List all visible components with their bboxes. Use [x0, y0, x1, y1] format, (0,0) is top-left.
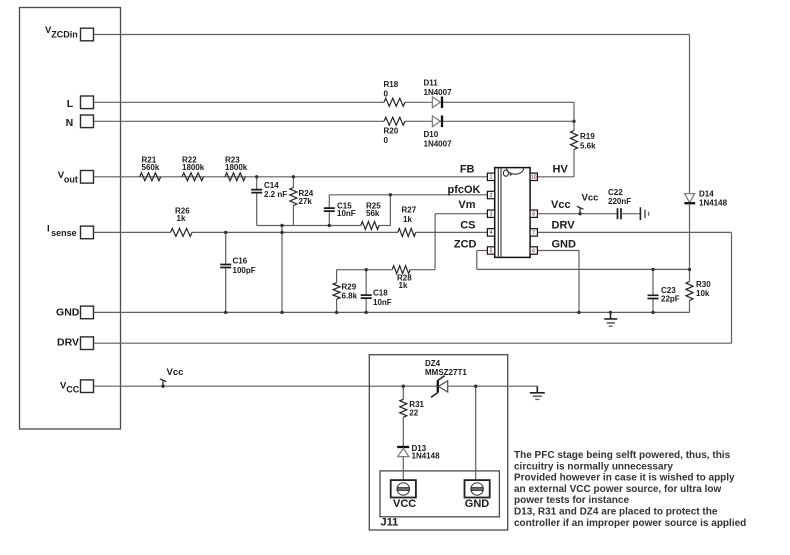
svg-text:C22: C22	[608, 188, 623, 197]
svg-text:6.8k: 6.8k	[342, 291, 358, 300]
svg-text:R27: R27	[402, 205, 417, 214]
svg-text:C16: C16	[233, 257, 248, 266]
svg-text:Vcc: Vcc	[551, 199, 571, 211]
svg-text:R20: R20	[384, 127, 399, 136]
svg-text:out: out	[64, 174, 78, 184]
svg-text:R30: R30	[696, 280, 711, 289]
svg-text:circuitry is normally unnecess: circuitry is normally unnecessary	[514, 461, 673, 472]
svg-text:1N4148: 1N4148	[699, 198, 728, 207]
svg-text:10k: 10k	[696, 289, 710, 298]
svg-text:GND: GND	[465, 498, 490, 510]
svg-text:4: 4	[490, 230, 493, 236]
svg-text:R19: R19	[580, 132, 595, 141]
svg-text:1800k: 1800k	[225, 163, 248, 172]
svg-text:2: 2	[490, 193, 493, 199]
svg-text:5.6k: 5.6k	[580, 141, 596, 150]
svg-text:D10: D10	[424, 130, 439, 139]
svg-text:DRV: DRV	[57, 336, 79, 348]
svg-text:56k: 56k	[366, 209, 380, 218]
svg-text:controller if an improper powe: controller if an improper power source i…	[514, 518, 746, 529]
svg-text:D13, R31 and DZ4 are placed to: D13, R31 and DZ4 are placed to protect t…	[514, 507, 718, 518]
svg-text:1k: 1k	[177, 214, 186, 223]
svg-text:100pF: 100pF	[233, 266, 256, 275]
svg-text:6: 6	[532, 248, 535, 254]
svg-text:0: 0	[384, 136, 389, 145]
svg-text:D14: D14	[699, 189, 714, 198]
svg-text:The PFC stage being selft powe: The PFC stage being selft powered, thus,…	[514, 450, 731, 461]
svg-text:22pF: 22pF	[661, 294, 680, 303]
svg-text:10: 10	[531, 175, 537, 181]
svg-text:5: 5	[490, 248, 493, 254]
svg-text:1: 1	[490, 175, 493, 181]
svg-text:N: N	[66, 117, 74, 129]
svg-text:1N4007: 1N4007	[424, 140, 453, 149]
svg-text:DRV: DRV	[552, 220, 576, 232]
svg-text:CS: CS	[460, 220, 475, 232]
svg-text:C14: C14	[264, 181, 279, 190]
svg-text:10nF: 10nF	[373, 298, 392, 307]
svg-text:GND: GND	[56, 307, 80, 319]
svg-text:CC: CC	[66, 384, 79, 394]
svg-text:1N4148: 1N4148	[412, 452, 441, 461]
svg-text:HV: HV	[553, 164, 569, 176]
svg-text:22: 22	[409, 408, 418, 417]
svg-text:R29: R29	[342, 282, 357, 291]
svg-text:Vm: Vm	[458, 199, 475, 211]
svg-text:Provided however in case it is: Provided however in case it is wished to…	[514, 473, 735, 484]
svg-text:R18: R18	[384, 80, 399, 89]
svg-text:I: I	[47, 223, 50, 234]
svg-text:sense: sense	[51, 228, 77, 238]
svg-text:27k: 27k	[299, 197, 313, 206]
svg-text:560k: 560k	[142, 163, 160, 172]
svg-text:8: 8	[532, 212, 535, 218]
svg-text:GND: GND	[552, 239, 577, 251]
svg-text:10nF: 10nF	[337, 209, 356, 218]
svg-text:ZCD: ZCD	[454, 239, 477, 251]
svg-text:C18: C18	[373, 289, 388, 298]
svg-text:D11: D11	[424, 79, 439, 88]
svg-text:pfcOK: pfcOK	[448, 184, 481, 196]
svg-text:1800k: 1800k	[182, 163, 205, 172]
svg-text:MMSZ27T1: MMSZ27T1	[425, 368, 467, 377]
svg-text:power tests for instance: power tests for instance	[514, 495, 629, 506]
svg-text:2.2 nF: 2.2 nF	[264, 190, 287, 199]
svg-text:220nF: 220nF	[608, 197, 631, 206]
svg-text:Vcc: Vcc	[582, 192, 599, 203]
svg-text:1k: 1k	[399, 281, 408, 290]
svg-text:1N4007: 1N4007	[424, 88, 453, 97]
svg-text:DZ4: DZ4	[425, 359, 441, 368]
svg-text:an external VCC power source,: an external VCC power source, for ultra …	[514, 484, 721, 495]
svg-text:ZCDin: ZCDin	[51, 29, 78, 39]
svg-text:J11: J11	[381, 517, 399, 529]
svg-text:7: 7	[532, 230, 535, 236]
svg-text:Vcc: Vcc	[167, 367, 184, 378]
svg-text:L: L	[67, 98, 74, 110]
svg-text:0: 0	[384, 90, 389, 99]
svg-text:FB: FB	[460, 164, 475, 176]
svg-text:VCC: VCC	[393, 498, 416, 510]
svg-text:1k: 1k	[403, 215, 412, 224]
svg-text:3: 3	[490, 212, 493, 218]
